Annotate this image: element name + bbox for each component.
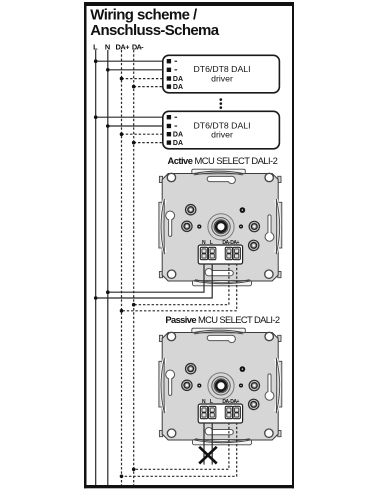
svg-text:Anschluss-Schema: Anschluss-Schema	[90, 22, 219, 39]
svg-text:DA: DA	[173, 76, 183, 83]
svg-text:Passive MCU SELECT DALI-2: Passive MCU SELECT DALI-2	[165, 314, 279, 325]
svg-text:Wiring scheme /: Wiring scheme /	[90, 7, 198, 24]
svg-text:Active MCU SELECT DALI-2: Active MCU SELECT DALI-2	[167, 155, 277, 166]
svg-text:DA+: DA+	[116, 42, 131, 51]
svg-text:driver: driver	[211, 130, 233, 140]
svg-text:DA: DA	[173, 84, 183, 91]
svg-text:DA: DA	[173, 140, 183, 147]
svg-text:DA: DA	[173, 132, 183, 139]
svg-text:driver: driver	[211, 73, 233, 83]
